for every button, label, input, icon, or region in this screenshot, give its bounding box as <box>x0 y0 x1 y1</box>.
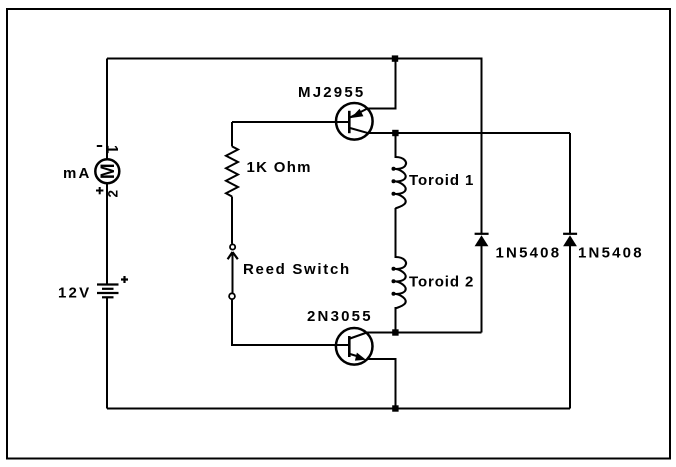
svg-text:12V: 12V <box>58 285 91 302</box>
svg-text:1: 1 <box>103 145 120 154</box>
svg-text:M: M <box>98 163 119 179</box>
svg-text:1K Ohm: 1K Ohm <box>247 159 312 176</box>
svg-text:Toroid 2: Toroid 2 <box>409 273 474 290</box>
svg-text:MJ2955: MJ2955 <box>298 84 365 101</box>
svg-text:2N3055: 2N3055 <box>307 308 373 325</box>
svg-text:mA: mA <box>63 165 92 182</box>
svg-text:Toroid 1: Toroid 1 <box>409 172 474 189</box>
svg-text:1N5408: 1N5408 <box>496 245 562 262</box>
svg-text:1N5408: 1N5408 <box>578 245 644 262</box>
svg-text:Reed Switch: Reed Switch <box>243 261 351 278</box>
svg-text:2: 2 <box>106 190 121 198</box>
